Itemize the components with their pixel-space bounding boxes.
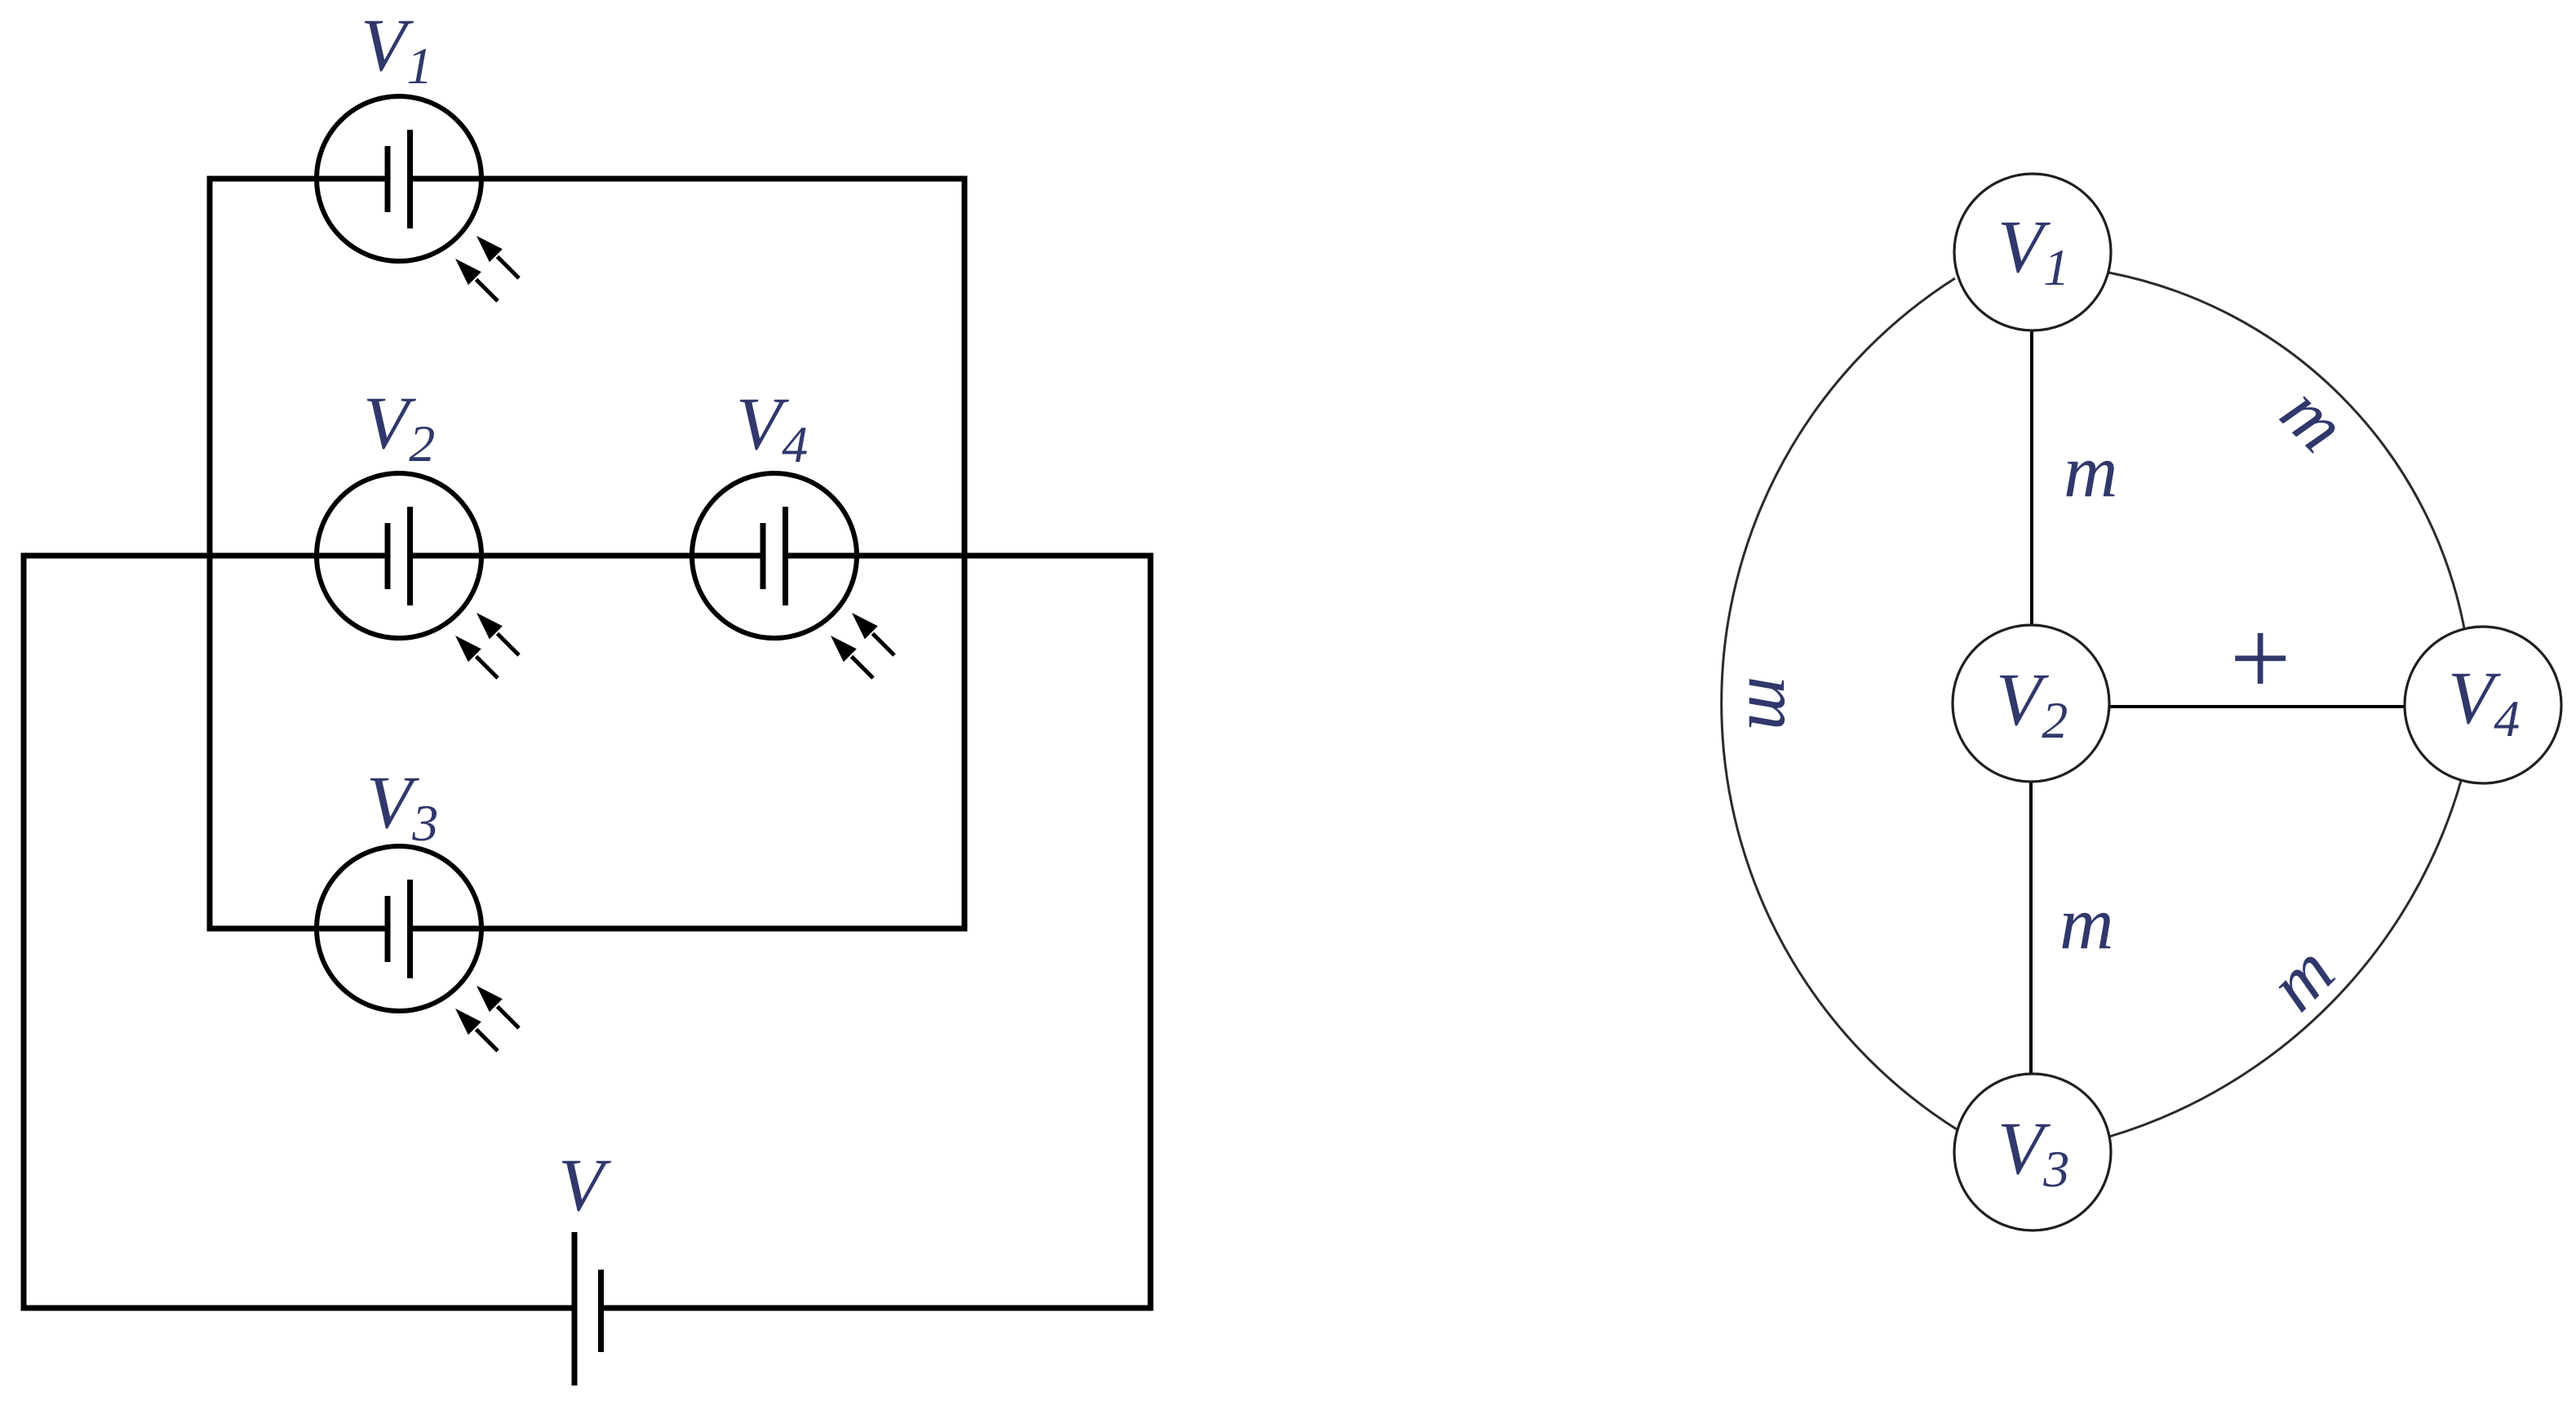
edge V2-V3: [2029, 782, 2033, 1074]
photocell V1: [317, 96, 519, 301]
photocell V2: [317, 473, 519, 678]
arc edge V3-V4: [2109, 781, 2461, 1137]
svg-text:V: V: [558, 1143, 612, 1226]
battery V long plate: [572, 1232, 578, 1385]
svg-text:m: m: [2064, 429, 2117, 512]
wire: inner rectangle left vertical: [207, 176, 213, 932]
battery V short plate: [598, 1270, 604, 1352]
edge V2-V4: [2109, 705, 2405, 708]
svg-text:m: m: [2059, 881, 2113, 964]
node V4: [2405, 627, 2561, 783]
wire: top row (V1 branch) left segment: [210, 176, 388, 182]
wire: inner rectangle right vertical: [962, 176, 968, 932]
wire: middle row (V2-V4 branch) left segment: [24, 553, 388, 559]
edge V1-V2: [2030, 330, 2033, 626]
wire: top row (V1 branch) right segment: [410, 176, 967, 182]
wire: middle row right of V4: [785, 553, 1151, 559]
photocell V4: [692, 473, 894, 678]
wire: bottom wire left of battery: [24, 1306, 574, 1311]
svg-text:+: +: [2223, 597, 2296, 718]
node V2: [1953, 625, 2109, 782]
wire: outer right vertical: [1148, 553, 1154, 1311]
wire: outer left vertical: [21, 553, 27, 1311]
wire: bottom row (V3 branch) left segment: [210, 926, 388, 932]
arc edge V1-V4: [2108, 273, 2464, 628]
photocell V3: [317, 846, 519, 1051]
node V3: [1954, 1074, 2111, 1230]
wire: bottom wire right of battery: [601, 1306, 1151, 1311]
node V1: [1954, 174, 2111, 330]
wire: bottom row (V3 branch) right segment: [410, 926, 964, 932]
svg-text:m: m: [1733, 676, 1816, 730]
arc edge V1-V3: [1722, 278, 1957, 1129]
wire: middle row between V2 and V4: [410, 553, 764, 559]
